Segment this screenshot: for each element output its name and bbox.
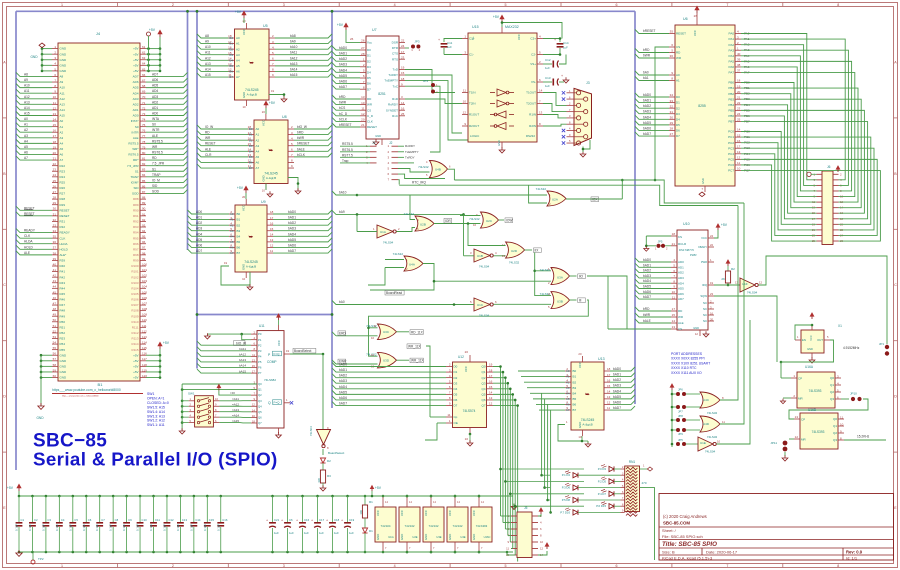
svg-text:R91: R91 [133, 214, 139, 218]
svg-text:30: 30 [670, 116, 674, 120]
svg-text:112: 112 [142, 329, 147, 333]
svg-text:A3: A3 [256, 144, 260, 148]
svg-text:NC: NC [703, 307, 707, 311]
bus vertical x187 [187, 11, 189, 250]
svg-text:C9: C9 [128, 518, 132, 522]
svg-text:GND: GND [375, 134, 381, 138]
wire IOX to U6 CS [621, 180, 623, 199]
svg-text:R24: R24 [60, 175, 66, 179]
svg-text:⮩: ⮩ [585, 392, 590, 398]
svg-text:U5: U5 [263, 24, 268, 28]
svg-text:U2B: U2B [420, 223, 426, 227]
svg-text:PA1: PA1 [729, 37, 735, 41]
svg-text:A-&gt;B: A-&gt;B [247, 93, 257, 97]
svg-text:AD4: AD4 [196, 232, 202, 236]
svg-text:GND: GND [376, 534, 380, 540]
gate U2D 74LS32 [468, 224, 551, 296]
svg-text:1uF: 1uF [334, 531, 339, 535]
svg-text:AD6: AD6 [133, 80, 139, 84]
svg-text:35: 35 [53, 235, 57, 239]
svg-text:6: 6 [615, 564, 617, 568]
svg-text:D3: D3 [454, 381, 458, 385]
svg-text:U13: U13 [598, 357, 605, 361]
svg-text:JP5: JP5 [658, 240, 663, 244]
svg-text:WR: WR [676, 56, 682, 60]
svg-text:16: 16 [252, 414, 256, 418]
svg-text:15: 15 [737, 133, 741, 137]
svg-text:74LS32: 74LS32 [404, 212, 415, 216]
svg-text:31: 31 [53, 212, 57, 216]
svg-text:11: 11 [252, 353, 255, 357]
svg-text:R93: R93 [133, 225, 139, 229]
svg-text:Q2: Q2 [481, 376, 485, 380]
svg-text:70: 70 [142, 95, 146, 99]
svg-text:R1IN: R1IN [529, 113, 536, 117]
svg-text:R26: R26 [60, 186, 66, 190]
svg-text:4: 4 [569, 127, 571, 131]
svg-text:106: 106 [142, 296, 147, 300]
svg-text:C7: C7 [101, 518, 105, 522]
J6 pin2 +5V and pin1 gnd flag [807, 166, 840, 176]
svg-text:R27: R27 [60, 192, 66, 196]
svg-text:34: 34 [53, 229, 57, 233]
svg-text:=A13: =A13 [232, 408, 239, 412]
svg-text:11: 11 [607, 406, 610, 410]
svg-text:bA11: bA11 [239, 347, 246, 351]
polarized caps C16-C18 row 2 [292, 495, 360, 554]
svg-text:TxRDY: TxRDY [405, 155, 415, 159]
switch SW1 DIP5 [179, 384, 257, 434]
wire RN1 common to bottom left of title block [640, 488, 655, 560]
svg-text:GND: GND [60, 69, 68, 73]
svg-text:14: 14 [248, 148, 252, 152]
svg-text:BoardSelect: BoardSelect [328, 451, 345, 455]
svg-text:Q5: Q5 [481, 392, 485, 396]
svg-text:15: 15 [489, 385, 493, 389]
svg-text:C15: C15 [209, 518, 215, 522]
svg-text:bRD: bRD [643, 48, 650, 52]
svg-text:74LS04: 74LS04 [705, 450, 716, 454]
svg-text:78: 78 [142, 140, 146, 144]
svg-text:12: 12 [502, 243, 506, 247]
svg-text:RCLR: RCLR [678, 242, 687, 246]
svg-text:R97: R97 [133, 247, 139, 251]
svg-text:WR*: WR* [132, 147, 139, 151]
svg-text:64: 64 [142, 62, 146, 66]
svg-text:A7: A7 [256, 166, 260, 170]
wires U12 D from bus x332 [332, 344, 446, 440]
svg-text:+5V: +5V [133, 47, 138, 51]
wires U10 left from bus x635 [600, 258, 671, 329]
svg-text:C13: C13 [182, 518, 188, 522]
svg-text:12: 12 [695, 332, 699, 336]
label bA9 from bus [332, 210, 465, 216]
svg-text:+5V: +5V [133, 353, 138, 357]
svg-text:bCLK: bCLK [297, 153, 306, 157]
svg-text:99: 99 [142, 257, 146, 261]
wire nest 8255 ports to J6 left brackets [741, 34, 817, 242]
svg-text:46: 46 [53, 296, 57, 300]
svg-text:bAD4: bAD4 [339, 385, 347, 389]
svg-text:bALE: bALE [297, 147, 305, 151]
SW1 right wires with =A labels to U11 Q pins [218, 387, 220, 391]
svg-text:bAD3: bAD3 [613, 384, 621, 388]
svg-text:PORT ADDRESSES: PORT ADDRESSES [671, 352, 703, 356]
svg-text:AD3: AD3 [152, 95, 158, 99]
svg-text:2: 2 [419, 48, 421, 52]
svg-text:VCC: VCC [277, 340, 281, 346]
svg-text:1uF: 1uF [304, 531, 309, 535]
svg-text:bWR: bWR [297, 136, 305, 140]
svg-text:6: 6 [540, 527, 542, 531]
svg-text:SYNDET: SYNDET [386, 108, 398, 112]
svg-text:P.1 D4: P.1 D4 [562, 473, 571, 477]
svg-text:A4: A4 [256, 149, 260, 153]
svg-text:IO_W: IO_W [205, 125, 213, 129]
svg-text:12: 12 [228, 68, 232, 72]
resistor network RN1 470 [621, 460, 655, 560]
svg-text:74LS32: 74LS32 [536, 187, 547, 191]
svg-text:94: 94 [142, 229, 146, 233]
svg-text:B7: B7 [237, 251, 241, 255]
svg-text:SW1: SW1 [188, 392, 195, 396]
svg-text:81: 81 [142, 157, 146, 161]
svg-text:bAD6: bAD6 [643, 290, 651, 294]
svg-text:R31: R31 [60, 220, 66, 224]
svg-text:bIO_W: bIO_W [236, 341, 246, 345]
svg-text:1: 1 [793, 374, 795, 378]
svg-text:B: B [3, 172, 6, 176]
svg-text:D2: D2 [454, 376, 458, 380]
svg-text:12: 12 [371, 353, 375, 357]
svg-text:22: 22 [53, 162, 57, 166]
svg-text:A6: A6 [24, 151, 28, 155]
svg-text:1: 1 [655, 247, 657, 251]
svg-text:27: 27 [361, 46, 365, 50]
svg-text:A13: A13 [24, 100, 30, 104]
svg-text:EN: EN [802, 338, 806, 342]
svg-text:CLK: CLK [24, 234, 31, 238]
svg-text:NC: NC [703, 313, 707, 317]
svg-text:15: 15 [252, 364, 256, 368]
svg-text:+5V: +5V [375, 486, 382, 490]
svg-text:S1: S1 [152, 167, 156, 171]
svg-text:⮩: ⮩ [249, 235, 254, 241]
svg-text:+5V: +5V [133, 376, 138, 380]
svg-text:bA10: bA10 [290, 45, 298, 49]
svg-text:74LS574: 74LS574 [463, 409, 476, 413]
svg-text:22: 22 [710, 243, 714, 247]
svg-text:bAD2: bAD2 [643, 104, 651, 108]
svg-text:R1OUT: R1OUT [469, 113, 479, 117]
svg-text:3: 3 [283, 564, 285, 568]
svg-text:D7: D7 [676, 134, 680, 138]
capacitor C11 [438, 38, 462, 55]
svg-text:A5: A5 [236, 64, 240, 68]
svg-text:A8: A8 [24, 72, 28, 76]
svg-text:100: 100 [359, 510, 363, 515]
svg-text:P.4 D7: P.4 D7 [598, 492, 607, 496]
svg-text:18: 18 [672, 232, 676, 236]
svg-text:16: 16 [737, 139, 741, 143]
svg-text:NC: NC [703, 319, 707, 323]
svg-text:A11: A11 [24, 89, 30, 93]
svg-text:OUT: OUT [817, 338, 823, 342]
svg-text:12: 12 [53, 106, 57, 110]
svg-text:7: 7 [726, 3, 728, 7]
svg-text:VS+: VS+ [530, 62, 536, 66]
svg-text:1: 1 [566, 420, 568, 424]
label bA10 from bus [332, 191, 358, 197]
svg-text:U1G: U1G [388, 535, 394, 539]
svg-text:R103: R103 [131, 281, 139, 285]
svg-text:A0: A0 [256, 127, 260, 131]
big sheet title SBC-85 [33, 431, 278, 470]
svg-text:114: 114 [142, 340, 147, 344]
svg-text:WR_11X: WR_11X [411, 359, 424, 363]
svg-text:VCC: VCC [376, 510, 380, 516]
svg-text:KS: KS [678, 235, 682, 239]
svg-text:12: 12 [252, 403, 256, 407]
svg-text:3: 3 [283, 3, 285, 7]
svg-text:6: 6 [495, 300, 497, 304]
svg-text:bAD3: bAD3 [339, 379, 347, 383]
svg-text:7.5_JPR: 7.5_JPR [127, 164, 139, 168]
svg-text:A1: A1 [60, 125, 64, 129]
svg-text:15: 15 [672, 313, 676, 317]
svg-text:VCC: VCC [261, 120, 265, 126]
svg-text:RST7.5: RST7.5 [342, 153, 353, 157]
svg-text:GND: GND [448, 534, 452, 540]
svg-text:R106: R106 [131, 298, 139, 302]
svg-text:bA0: bA0 [339, 300, 345, 304]
svg-text:+5V: +5V [133, 58, 138, 62]
svg-text:RxD: RxD [392, 97, 399, 101]
svg-text:59: 59 [53, 368, 57, 372]
svg-text:C19: C19 [349, 518, 355, 522]
svg-text:19: 19 [271, 89, 275, 93]
svg-text:C2+: C2+ [530, 37, 536, 41]
svg-text:D: D [3, 395, 6, 399]
svg-text:14: 14 [737, 128, 741, 132]
svg-text:10: 10 [578, 435, 582, 439]
IC U12 74LS574 latch [446, 350, 493, 446]
svg-text:R101: R101 [131, 270, 139, 274]
svg-text:P1: P1 [258, 338, 262, 342]
IC U6 8255 PPI [669, 7, 750, 197]
svg-text:0.1uF: 0.1uF [136, 524, 140, 531]
svg-text:bAD6: bAD6 [339, 396, 347, 400]
svg-text:13: 13 [53, 112, 57, 116]
svg-text:60: 60 [53, 374, 57, 378]
svg-text:AD5: AD5 [196, 238, 202, 242]
svg-text:11: 11 [248, 164, 251, 168]
svg-text:SW1.1: A11: SW1.1: A11 [147, 423, 165, 427]
svg-text:18: 18 [401, 77, 405, 81]
svg-text:7: 7 [433, 546, 435, 550]
svg-text:AD0: AD0 [133, 114, 139, 118]
svg-text:R112: R112 [132, 331, 139, 335]
svg-text:86: 86 [142, 184, 146, 188]
svg-text:bAD5: bAD5 [339, 74, 347, 78]
svg-text:74: 74 [142, 117, 146, 121]
crystal oscillator X1 [781, 313, 860, 378]
svg-text:23: 23 [401, 55, 405, 59]
svg-text:AD6: AD6 [678, 292, 684, 296]
svg-text:D0: D0 [676, 95, 680, 99]
svg-text:U2D: U2D [511, 249, 518, 253]
svg-text:D5: D5 [676, 123, 680, 127]
svg-text:bAD2: bAD2 [643, 269, 651, 273]
IC U7 8251 USART [360, 28, 405, 145]
svg-text:CS: CS [678, 327, 682, 331]
svg-text:CLR: CLR [205, 153, 212, 157]
svg-text:R55: R55 [60, 348, 66, 352]
svg-text:U7: U7 [372, 28, 377, 32]
svg-text:NC: NC [703, 301, 707, 305]
svg-text:82: 82 [142, 162, 146, 166]
svg-text:20: 20 [710, 318, 714, 322]
svg-text:74LS04: 74LS04 [479, 265, 490, 269]
svg-text:8255: 8255 [698, 104, 706, 108]
svg-text:15: 15 [228, 51, 232, 55]
svg-text:RTC_IRQ: RTC_IRQ [412, 181, 426, 185]
svg-text:17: 17 [737, 144, 741, 148]
svg-text:A1: A1 [676, 79, 680, 83]
wires J2 rows 4-7 [398, 162, 414, 164]
svg-text:INTR: INTR [132, 130, 140, 134]
svg-text:bALE: bALE [643, 319, 651, 323]
svg-text:Sheet: /: Sheet: / [662, 528, 677, 533]
svg-text:P2: P2 [258, 343, 262, 347]
bus main horizontal top [16, 10, 635, 12]
svg-text:50: 50 [53, 318, 57, 322]
svg-text:+5V: +5V [493, 15, 500, 19]
svg-text:U8: U8 [282, 115, 287, 119]
svg-text:AD2: AD2 [196, 221, 202, 225]
svg-text:bAD7: bAD7 [288, 249, 296, 253]
svg-text:IIO: IIO [579, 275, 584, 279]
svg-text:C: C [894, 283, 897, 287]
svg-text:2: 2 [436, 90, 438, 94]
svg-text:98: 98 [142, 251, 146, 255]
svg-text:bA15: bA15 [290, 73, 298, 77]
svg-text:25: 25 [53, 179, 57, 183]
svg-text:U3C: U3C [383, 330, 390, 334]
svg-text:C16: C16 [304, 518, 310, 522]
IC U8 74LS245 control buffer [248, 101, 294, 193]
svg-text:96: 96 [142, 240, 146, 244]
svg-text:bAD5: bAD5 [643, 285, 651, 289]
svg-text:1: 1 [286, 398, 288, 402]
svg-text:4: 4 [426, 160, 428, 164]
aux gate block JP6 JP7 U4C [670, 206, 738, 448]
aux gate block JP8 JP9 U4D [672, 203, 744, 439]
svg-text:0.1uF: 0.1uF [82, 524, 86, 531]
jumper JP1 [879, 342, 889, 356]
svg-text:bAD6: bAD6 [613, 400, 621, 404]
bus vertical x197 [196, 11, 198, 368]
svg-text:18: 18 [53, 140, 57, 144]
svg-text:bAD0: bAD0 [613, 367, 621, 371]
svg-text:R2: R2 [731, 267, 735, 271]
svg-text:52: 52 [53, 329, 57, 333]
svg-text:11: 11 [361, 106, 364, 110]
svg-text:14: 14 [228, 57, 232, 61]
svg-text:11: 11 [722, 420, 725, 424]
svg-text:R113: R113 [132, 337, 139, 341]
svg-text:PC1: PC1 [728, 135, 734, 139]
svg-text:1uF: 1uF [319, 531, 324, 535]
wire IIO to U10 CS [587, 276, 671, 329]
svg-text:BoardRead: BoardRead [386, 291, 402, 295]
svg-text:RESET: RESET [60, 214, 70, 218]
svg-text:bA13: bA13 [290, 62, 298, 66]
svg-text:10: 10 [540, 540, 544, 544]
svg-text:TRAP: TRAP [152, 173, 161, 177]
svg-text:19: 19 [224, 261, 228, 265]
svg-text:11: 11 [506, 547, 509, 551]
svg-text:SW1.3: A13: SW1.3: A13 [147, 414, 165, 418]
svg-text:15: 15 [53, 123, 57, 127]
svg-text:RST5.5: RST5.5 [152, 139, 163, 143]
svg-text:Q1: Q1 [258, 388, 262, 392]
svg-text:0.1uF: 0.1uF [203, 524, 207, 531]
bus vertical left x16 [15, 11, 17, 470]
svg-text:Q0: Q0 [258, 382, 262, 386]
svg-text:+5V: +5V [133, 370, 138, 374]
svg-text:U3A: U3A [557, 276, 563, 280]
svg-text:A-&gt;B: A-&gt;B [246, 265, 256, 269]
svg-text:24: 24 [401, 44, 405, 48]
svg-text:bRESET: bRESET [643, 29, 655, 33]
svg-text:5: 5 [548, 305, 550, 309]
svg-text:SBC-85.COM: SBC-85.COM [663, 521, 690, 526]
svg-text:C1+: C1+ [469, 37, 475, 41]
svg-text:A8: A8 [205, 34, 209, 38]
svg-text:14: 14 [433, 500, 436, 504]
wires U9 right bAD labels to bus x332 [273, 210, 332, 253]
wire +5V to U6 VCC [501, 21, 562, 40]
svg-text:87: 87 [142, 190, 146, 194]
svg-text:bAD2: bAD2 [339, 374, 347, 378]
svg-text:A1: A1 [24, 123, 28, 127]
svg-text:14: 14 [409, 500, 412, 504]
svg-text:A8: A8 [60, 75, 64, 79]
svg-text:12: 12 [248, 159, 252, 163]
svg-text:+5V: +5V [133, 52, 138, 56]
svg-text:PA4: PA4 [729, 54, 735, 58]
svg-text:R88: R88 [133, 197, 139, 201]
wires J4 right AD bus labels to bus x187 [146, 72, 188, 193]
svg-text:25: 25 [737, 118, 741, 122]
svg-text:B6: B6 [573, 403, 577, 407]
svg-text:AD0: AD0 [678, 260, 684, 264]
svg-text:1: 1 [797, 335, 799, 339]
svg-text:18: 18 [737, 79, 741, 83]
svg-text:A0: A0 [236, 36, 240, 40]
svg-text:R54: R54 [60, 342, 66, 346]
svg-text:J4: J4 [96, 31, 101, 36]
svg-text:C6: C6 [289, 518, 293, 522]
svg-text:ALE: ALE [152, 134, 158, 138]
aux gate U1E inverter [676, 320, 750, 454]
svg-text:105: 105 [142, 290, 147, 294]
svg-text:26: 26 [53, 184, 57, 188]
svg-text:10: 10 [242, 277, 246, 281]
svg-text:BoardSelect: BoardSelect [294, 349, 311, 353]
svg-text:Size: B: Size: B [662, 550, 675, 555]
